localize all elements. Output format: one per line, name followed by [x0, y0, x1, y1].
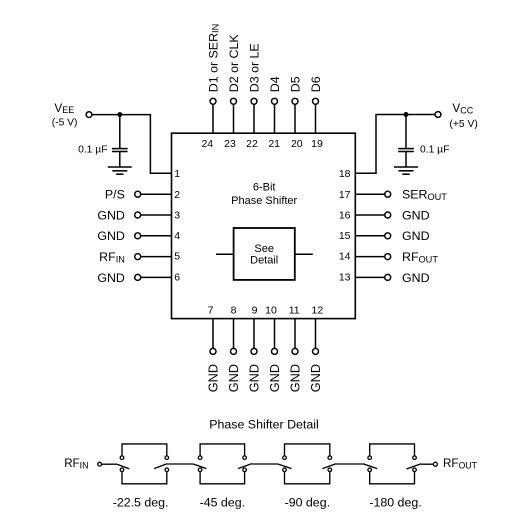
svg-text:9: 9 [252, 304, 258, 316]
svg-text:RFIN: RFIN [99, 250, 125, 264]
svg-text:23: 23 [224, 138, 236, 150]
svg-text:11: 11 [289, 304, 300, 316]
svg-text:D2 or CLK: D2 or CLK [227, 34, 241, 93]
svg-text:24: 24 [201, 138, 213, 150]
svg-text:VCC: VCC [452, 101, 473, 115]
svg-text:-180 deg.: -180 deg. [369, 496, 421, 510]
svg-text:VEE: VEE [54, 101, 74, 115]
svg-text:4: 4 [174, 230, 180, 242]
svg-text:19: 19 [311, 138, 323, 150]
svg-text:P/S: P/S [105, 188, 125, 202]
svg-text:3: 3 [174, 209, 180, 221]
svg-text:GND: GND [97, 229, 125, 243]
svg-text:GND: GND [309, 364, 323, 392]
svg-text:13: 13 [339, 271, 351, 283]
svg-text:See: See [254, 243, 274, 255]
svg-text:D3 or LE: D3 or LE [247, 43, 261, 92]
svg-text:GND: GND [227, 364, 241, 392]
svg-text:(+5 V): (+5 V) [449, 119, 477, 130]
svg-text:GND: GND [288, 364, 302, 392]
svg-text:GND: GND [97, 208, 125, 222]
svg-text:-90 deg.: -90 deg. [285, 496, 330, 510]
svg-text:Phase Shifter: Phase Shifter [231, 195, 297, 207]
svg-text:6: 6 [174, 271, 180, 283]
svg-text:6-Bit: 6-Bit [253, 182, 276, 194]
svg-text:17: 17 [339, 189, 351, 201]
svg-text:-45 deg.: -45 deg. [200, 496, 245, 510]
svg-text:RFIN: RFIN [64, 457, 88, 470]
svg-text:22: 22 [246, 138, 258, 150]
svg-text:14: 14 [339, 251, 351, 263]
svg-text:2: 2 [174, 189, 180, 201]
svg-text:GND: GND [206, 364, 220, 392]
svg-text:0.1 µF: 0.1 µF [78, 144, 107, 155]
svg-text:GND: GND [402, 271, 430, 285]
svg-text:21: 21 [268, 138, 280, 150]
svg-text:GND: GND [402, 208, 430, 222]
svg-text:(-5 V): (-5 V) [52, 117, 78, 128]
svg-text:1: 1 [174, 168, 180, 180]
svg-text:12: 12 [312, 304, 324, 316]
svg-text:Detail: Detail [250, 255, 278, 267]
svg-text:7: 7 [208, 304, 214, 316]
svg-text:GND: GND [247, 364, 261, 392]
svg-text:SEROUT: SEROUT [402, 188, 447, 202]
svg-text:15: 15 [339, 230, 351, 242]
svg-text:18: 18 [339, 168, 351, 180]
svg-text:D5: D5 [288, 76, 302, 92]
svg-text:RFOUT: RFOUT [402, 250, 438, 264]
svg-text:GND: GND [402, 229, 430, 243]
svg-text:16: 16 [339, 209, 351, 221]
svg-text:10: 10 [265, 304, 277, 316]
svg-text:GND: GND [268, 364, 282, 392]
svg-text:-22.5 deg.: -22.5 deg. [113, 496, 169, 510]
svg-text:20: 20 [291, 138, 303, 150]
svg-text:5: 5 [174, 251, 180, 263]
svg-text:D6: D6 [309, 76, 323, 92]
svg-text:D4: D4 [268, 76, 282, 92]
svg-text:D1 or SERIN: D1 or SERIN [206, 24, 220, 92]
svg-text:GND: GND [97, 271, 125, 285]
svg-text:Phase Shifter Detail: Phase Shifter Detail [209, 417, 319, 431]
svg-text:RFOUT: RFOUT [443, 457, 478, 470]
svg-text:8: 8 [231, 304, 237, 316]
svg-text:0.1 µF: 0.1 µF [420, 144, 449, 155]
